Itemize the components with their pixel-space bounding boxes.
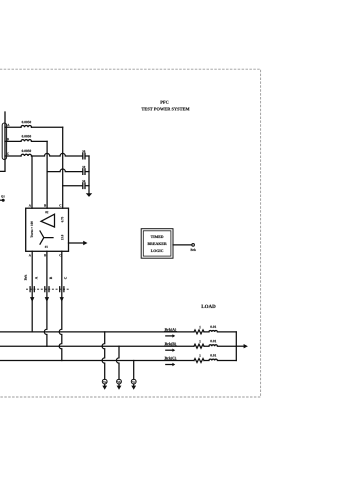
dashed drawing border (0, 69, 261, 397)
wire voltmeter drop Va with hops over bus2, bus3 (102, 332, 105, 379)
wire voltmeter drop Vb with hop over bus3 (116, 346, 119, 379)
node Q1 (left edge port) (0, 195, 5, 201)
breaker label Brk(B) (164, 342, 177, 352)
pin B (transformer bottom) (44, 254, 46, 256)
inductor LA 0.0050 (21, 121, 32, 127)
pin A (transformer top) (29, 204, 31, 206)
capacitor C1 50 (82, 150, 89, 159)
wire cap line 3 (63, 185, 83, 187)
wire load neutral out (236, 345, 243, 347)
capacitor C2 50 (82, 166, 89, 175)
inductor LB 0.0050 (21, 135, 32, 141)
resistor R1 (1 ohm) (194, 326, 204, 334)
inductor LC 0.0050 (21, 150, 32, 156)
wire load common (right vertical) (235, 332, 237, 361)
ground (transformer neutral, right arrow) (83, 241, 87, 245)
voltmeter Va (102, 379, 107, 390)
wire row B (5, 140, 21, 142)
breaker BRK (3-phase gang, dashed linkage) (24, 275, 70, 292)
flow arrow phase B (45, 297, 49, 302)
inductor L1 (0.01) (204, 326, 236, 332)
wire row A (5, 126, 21, 128)
pin C (transformer bottom) (59, 254, 61, 256)
wire secondary phase B down with hop over bus1 (44, 251, 47, 346)
bus 1 (phase A bus) with load resistor/inductor row (0, 331, 194, 333)
delta winding #2 (41, 214, 55, 227)
wire cap line 2 with hop over A-drop (47, 169, 82, 172)
bus 3 (phase C bus) (0, 360, 194, 362)
wire C-drop (phase C down to transformer) (31, 156, 33, 208)
flow arrow phase C (60, 297, 64, 302)
pin B (transformer top) (44, 204, 46, 206)
inductor L2 (0.01) (204, 340, 236, 346)
breaker label Brk(C) (164, 357, 177, 367)
resistor R2 (1 ohm) (194, 340, 204, 348)
wire row B to corner (32, 140, 48, 142)
inductor L3 (0.01) (204, 354, 236, 360)
wire voltmeter drop Vc (133, 361, 135, 380)
wire row C with hops over B-drop and A-drop (32, 153, 83, 156)
resistor R3 (1 ohm) (194, 354, 204, 362)
wire secondary phase A down (31, 251, 33, 332)
wire row C (5, 155, 21, 157)
pin C (transformer top) (59, 204, 61, 206)
node A label (source tap A) (7, 124, 9, 126)
node B label (source tap B) (7, 138, 9, 140)
title text (141, 101, 189, 111)
wire breaker logic output (173, 244, 192, 246)
timed breaker logic U1 (141, 229, 173, 259)
voltmeter Vb (117, 379, 122, 390)
wire B-drop (phase B down to transformer) (46, 141, 48, 208)
ground (load neutral, right arrow) (244, 344, 248, 348)
node C label (source tap C) (7, 153, 9, 155)
pin A (transformer bottom) (29, 254, 31, 256)
bus 2 (phase B bus) (0, 345, 194, 347)
wire row A to corner (32, 126, 63, 128)
capacitor C3 50 (82, 180, 89, 188)
transformer T1 (delta-wye) (26, 208, 69, 251)
wire secondary phase C down with hops over bus1 and bus2 (59, 251, 62, 360)
voltmeter Vc (131, 379, 136, 390)
ground (capacitor bank) (86, 193, 92, 197)
breaker label Brk(A) (164, 328, 177, 338)
LOAD label (201, 305, 215, 308)
flow arrow phase A (30, 297, 34, 302)
wye winding #1 (40, 231, 53, 244)
wire A-drop (phase A down to transformer) (62, 127, 64, 208)
source G1 (three-phase source, cut off at left edge) (0, 112, 7, 171)
node Brk (breaker control output) (191, 244, 196, 251)
wire capacitor common (88, 156, 90, 193)
wire transformer neutral (69, 242, 84, 244)
